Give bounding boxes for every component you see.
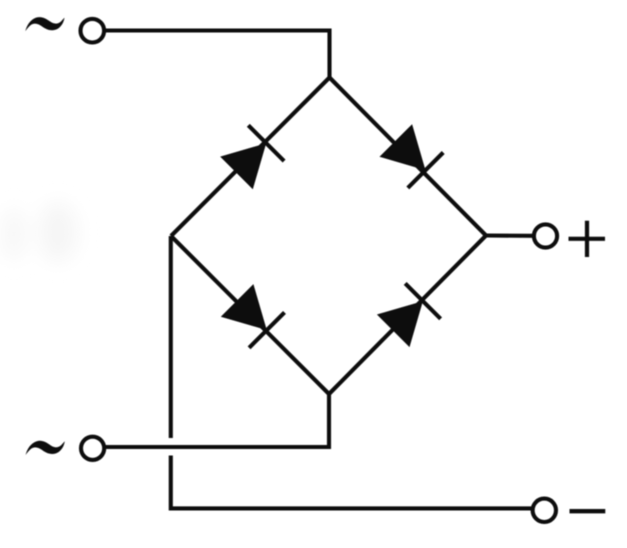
wire L down (upper part, before crossover gap)	[169, 236, 173, 438]
wire B to R (lower-right side)	[329, 236, 486, 395]
label - sign	[570, 509, 606, 513]
terminal DC- (bottom-right circle)	[533, 499, 556, 522]
label + sign	[569, 221, 606, 257]
wire T to L (upper-left side)	[171, 78, 330, 237]
terminal DC+ (right circle)	[534, 224, 557, 247]
AC source symbol ~ (bottom-left)	[26, 441, 65, 455]
wire B down to AC2 wire junction	[327, 394, 331, 449]
wire AC2 to bridge bottom junction	[105, 445, 331, 449]
wire T to R (upper-right side)	[330, 78, 487, 236]
wire L to B (lower-left side)	[171, 236, 329, 394]
wire R to + terminal	[486, 233, 534, 237]
AC source symbol ~ (top-left)	[25, 17, 64, 31]
wire AC1 to top corner	[104, 31, 329, 78]
diode D2 (upper-right, cathode toward right vertex)	[380, 124, 444, 188]
diode D4 (lower-right, cathode toward right vertex)	[377, 283, 441, 347]
wire L down (lower part, after crossover gap)	[171, 456, 533, 509]
terminal AC1 (top-left circle)	[81, 19, 105, 43]
diode D1 (upper-left, cathode toward top vertex)	[220, 125, 284, 189]
diode D3 (lower-left, cathode toward bottom vertex)	[221, 284, 285, 348]
terminal AC2 (bottom-left circle)	[81, 437, 104, 460]
